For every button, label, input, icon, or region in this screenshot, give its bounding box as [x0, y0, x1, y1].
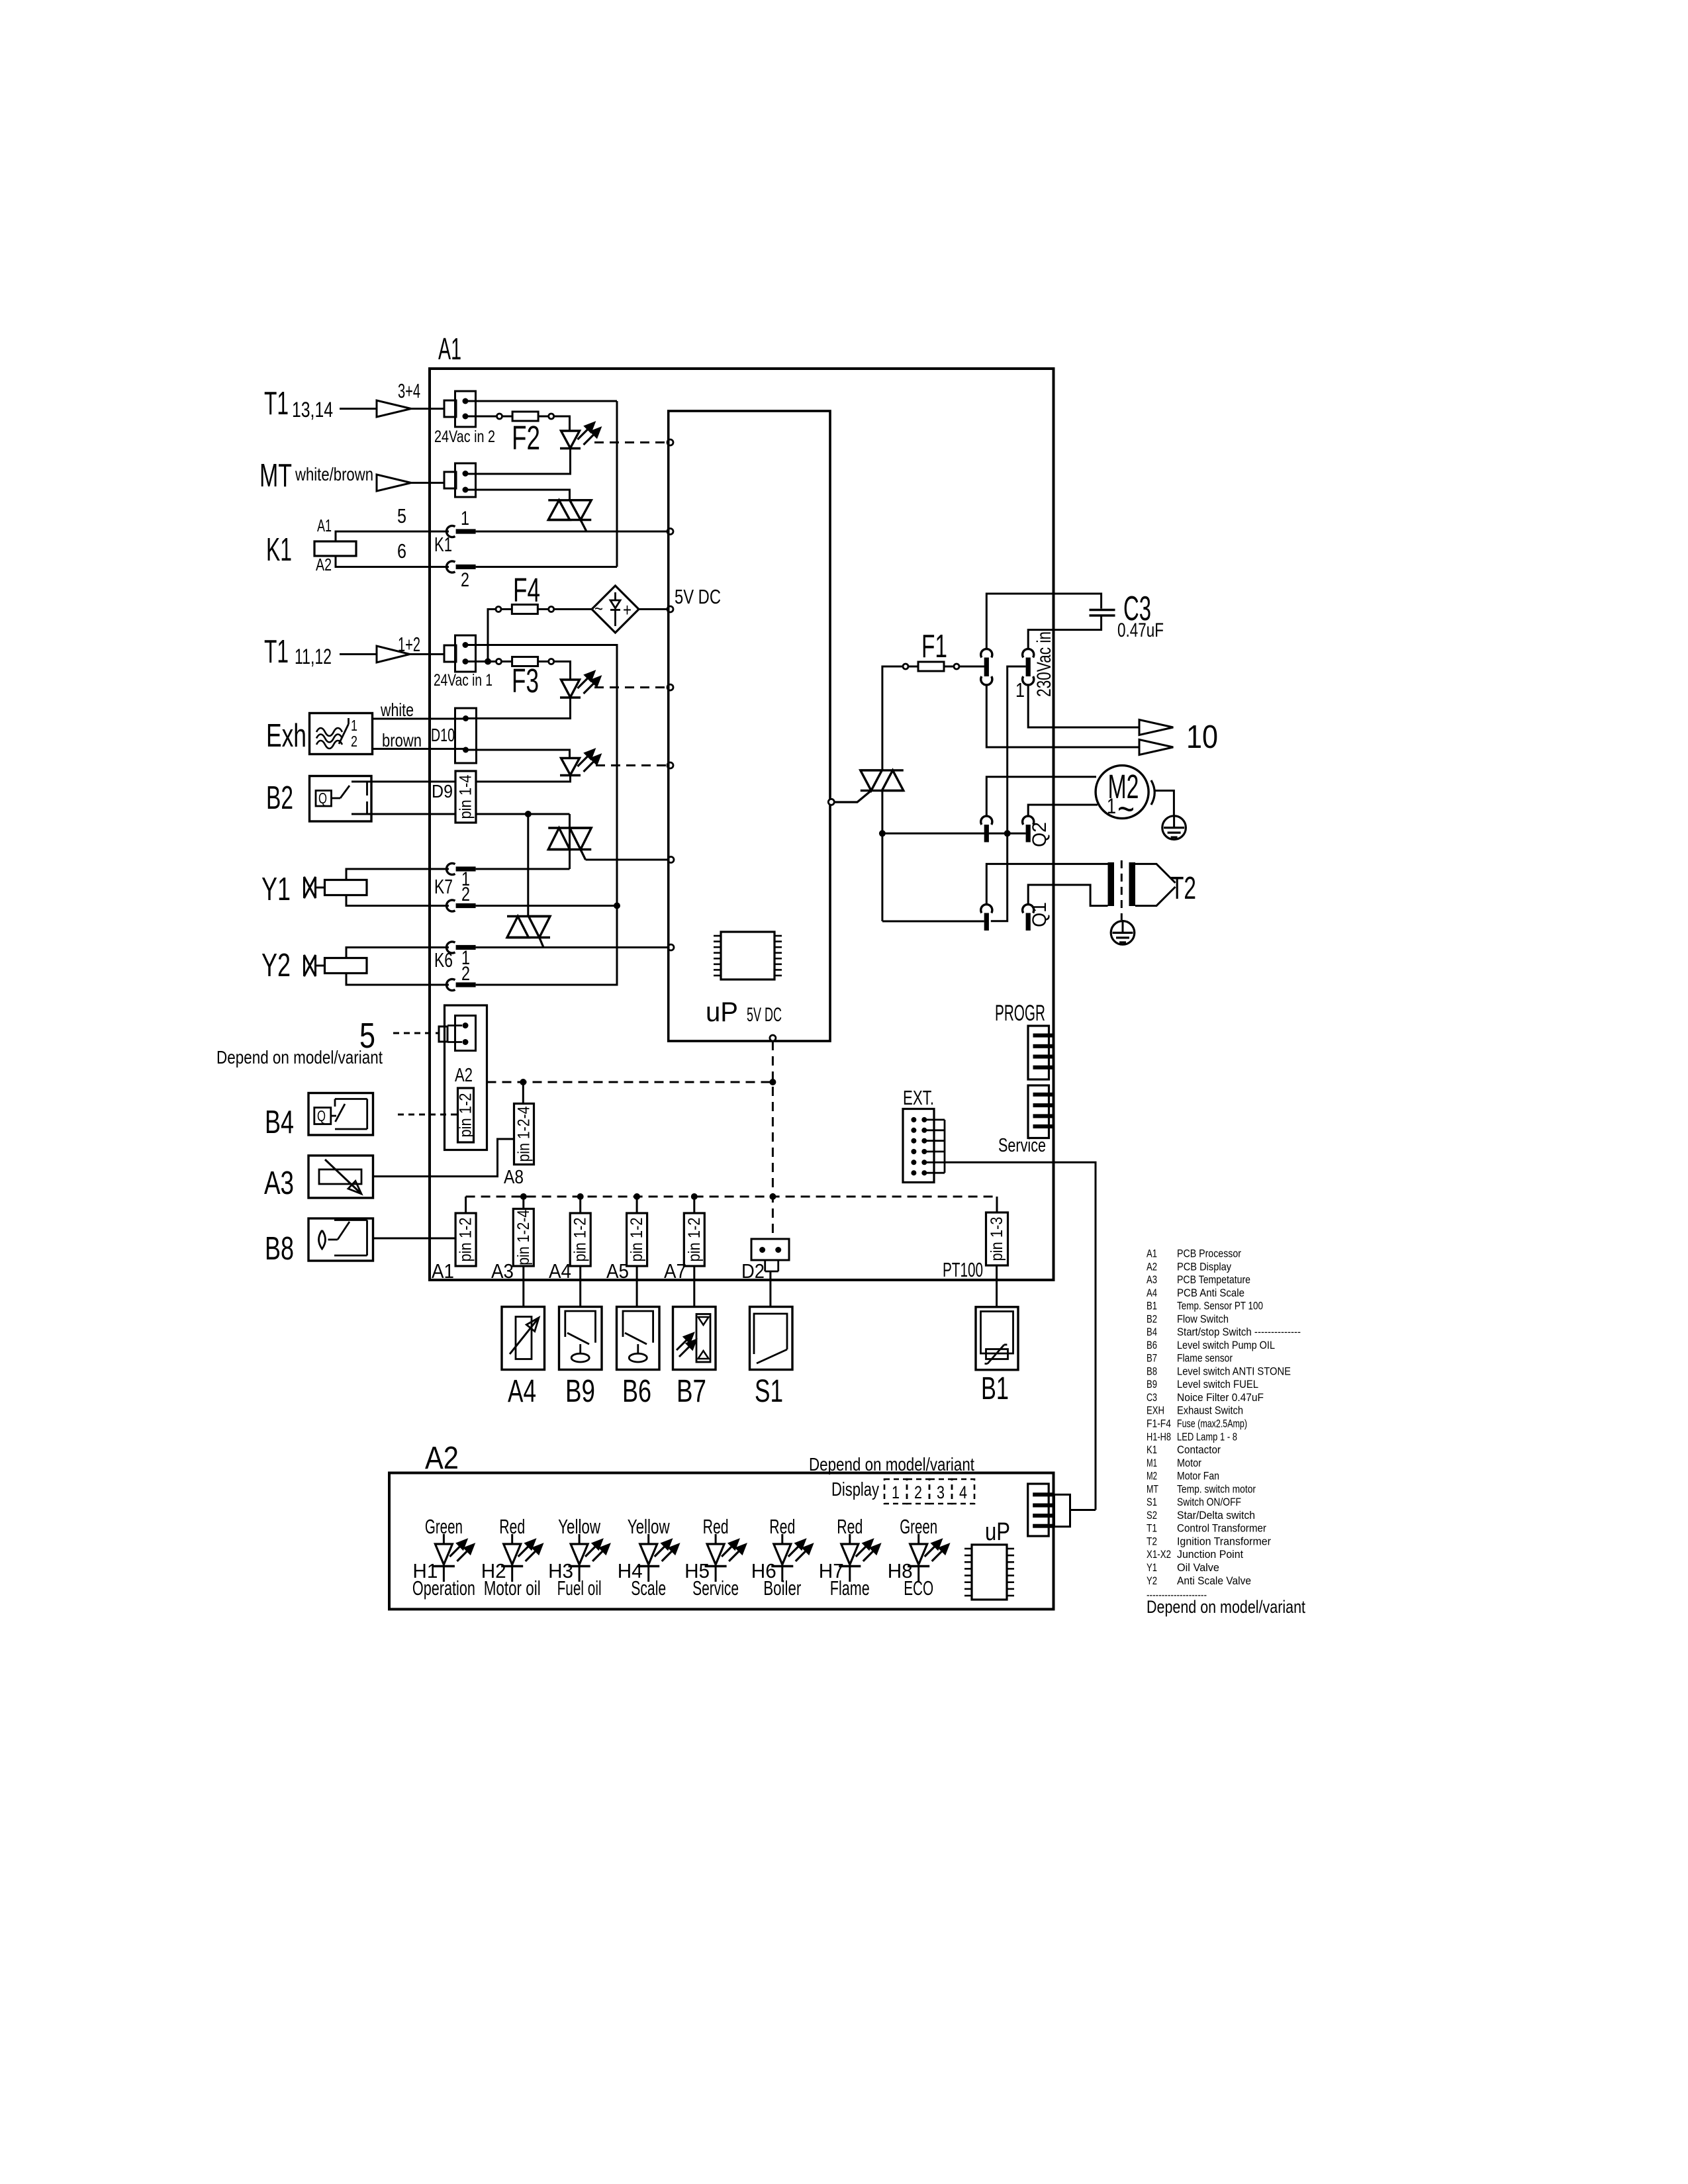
Exh switch box	[310, 713, 373, 754]
svg-text:PT100: PT100	[943, 1258, 983, 1281]
svg-text:Level switch ANTI STONE: Level switch ANTI STONE	[1177, 1365, 1291, 1377]
dashed wire 5 to A2 connector	[393, 1032, 439, 1034]
triac (K7 drive)	[548, 827, 591, 829]
svg-text:A2: A2	[425, 1441, 459, 1476]
svg-text:Star/Delta switch: Star/Delta switch	[1177, 1509, 1255, 1522]
A1 PCB Processor board outline	[430, 369, 1054, 1280]
svg-text:2: 2	[461, 963, 470, 985]
connector A2 (plug+socket)	[439, 1026, 447, 1042]
svg-text:1: 1	[892, 1482, 900, 1502]
relay coil K1	[314, 541, 356, 556]
svg-text:5: 5	[397, 504, 406, 527]
contact Q1 L	[981, 905, 992, 913]
B8 symbol	[319, 1230, 326, 1249]
230Vac in contact R	[1023, 649, 1034, 658]
temp sensor B1 box	[976, 1307, 1018, 1370]
wire K1 A1 to contact 1	[336, 531, 449, 541]
T2 secondary	[1129, 862, 1136, 906]
connector A5 pin 1-2	[627, 1213, 647, 1266]
svg-text:Temp. switch motor: Temp. switch motor	[1177, 1482, 1256, 1495]
svg-text:pin 1-2-4: pin 1-2-4	[514, 1210, 533, 1265]
connector Service comb	[1028, 1085, 1049, 1138]
svg-text:B1: B1	[1147, 1300, 1157, 1312]
wire vertical x932 down to K1 contact 2	[616, 401, 618, 567]
svg-text:D2: D2	[741, 1259, 765, 1283]
svg-text:A4: A4	[549, 1259, 571, 1283]
svg-text:B2: B2	[1147, 1312, 1157, 1325]
svg-text:230Vac in: 230Vac in	[1033, 631, 1055, 697]
svg-text:Temp. Sensor PT 100: Temp. Sensor PT 100	[1177, 1300, 1263, 1312]
triac (K1 drive)	[548, 499, 591, 501]
flame sensor B7 box	[673, 1307, 716, 1370]
wire Y1 to K7-2	[346, 895, 449, 906]
svg-text:pin 1-2: pin 1-2	[457, 1093, 475, 1138]
wire D9 branch down to triac K7	[569, 814, 571, 869]
wire 230Vac L bottom to arrow 10-2	[986, 685, 1139, 747]
svg-text:T2: T2	[1147, 1535, 1157, 1547]
svg-text:4: 4	[959, 1482, 967, 1502]
svg-text:MT: MT	[1147, 1482, 1158, 1495]
svg-text:K1: K1	[434, 533, 452, 556]
svg-text:A1: A1	[317, 516, 332, 535]
wire comb to EXT riser	[1070, 1509, 1096, 1511]
svg-text:A2: A2	[316, 555, 332, 574]
wire C3 top net	[986, 594, 1101, 649]
svg-text:Exh: Exh	[266, 718, 306, 754]
svg-text:F3: F3	[512, 662, 539, 700]
svg-text:A2: A2	[455, 1065, 473, 1086]
Y1 coil	[325, 880, 367, 895]
svg-text:2: 2	[351, 733, 357, 750]
svg-text:A4: A4	[1147, 1287, 1157, 1299]
dashed corner to PT100 pin	[996, 1197, 998, 1212]
wire 230Vac R bottom to arrow 10-1	[1028, 685, 1139, 727]
connector 24Vac in 1	[444, 645, 456, 662]
connector D9 pin 1-4	[455, 771, 476, 823]
svg-text:EXH: EXH	[1147, 1404, 1164, 1417]
svg-text:A2: A2	[1147, 1260, 1157, 1273]
wire bridge to uP 5V	[639, 608, 668, 610]
svg-text:5V DC: 5V DC	[747, 1004, 782, 1026]
svg-text:B2: B2	[266, 780, 293, 816]
svg-text:Junction Point: Junction Point	[1177, 1548, 1243, 1561]
level switch FUEL B9 box	[559, 1307, 602, 1370]
relay contact K1-1	[447, 525, 455, 537]
junction dot dashed A8	[520, 1079, 526, 1085]
svg-text:K1: K1	[1147, 1443, 1157, 1456]
fuse F3	[496, 659, 502, 664]
svg-text:M2: M2	[1147, 1470, 1157, 1482]
svg-text:F4: F4	[513, 571, 540, 609]
svg-text:T2: T2	[1170, 871, 1196, 906]
junction dot F4 tap	[485, 659, 491, 665]
display board comb connector	[1028, 1484, 1049, 1536]
dashed wire B4 to pin1-2	[398, 1114, 458, 1116]
connector PROGR comb	[1028, 1026, 1049, 1079]
svg-text:B1: B1	[981, 1371, 1009, 1406]
svg-text:MT: MT	[259, 458, 292, 494]
svg-text:5V DC: 5V DC	[675, 585, 721, 608]
connector A8 pin 1-2-4	[514, 1104, 534, 1165]
svg-text:3: 3	[937, 1482, 945, 1502]
wire LED3 bottom to B2 net	[352, 776, 571, 782]
bridge rectifier	[592, 586, 639, 633]
svg-text:10: 10	[1186, 719, 1218, 755]
svg-text:C3: C3	[1147, 1391, 1157, 1404]
wire 24Vac1 pin1 right and down to K6-2	[465, 645, 617, 985]
valve symbol Y1	[305, 877, 310, 898]
terminal uP right (triac M2/T2)	[828, 799, 834, 805]
wire K7-2 to x932 net	[476, 905, 617, 907]
svg-text:Contactor: Contactor	[1177, 1443, 1221, 1456]
connector D10	[455, 708, 477, 763]
wire K7-1 to triac branch	[476, 868, 570, 870]
switch ON/OFF S1 box	[750, 1307, 793, 1370]
svg-text:Ignition Transformer: Ignition Transformer	[1177, 1535, 1271, 1547]
dashed link LED to uP	[594, 441, 669, 443]
terminal on uP edge (5V DC)	[667, 606, 673, 612]
B4 box	[308, 1093, 373, 1136]
svg-text:2: 2	[914, 1482, 922, 1502]
svg-text:A1: A1	[432, 1259, 454, 1283]
svg-text:Service: Service	[998, 1135, 1046, 1156]
svg-text:Y2: Y2	[261, 948, 291, 983]
contact Q2 L	[981, 816, 992, 825]
svg-text:Display: Display	[831, 1479, 879, 1500]
svg-text:Service: Service	[692, 1576, 739, 1600]
wire A3 to A8	[373, 1139, 514, 1177]
svg-text:Level switch FUEL: Level switch FUEL	[1177, 1378, 1258, 1390]
svg-text:F1: F1	[921, 629, 947, 664]
wire Y1 to K7-1	[346, 869, 449, 880]
svg-text:2: 2	[461, 884, 470, 905]
wire B2 to D9 (through) lower	[352, 813, 570, 815]
svg-text:1: 1	[461, 508, 469, 529]
svg-text:Boiler: Boiler	[763, 1576, 801, 1600]
EXT bus bar	[944, 1120, 946, 1173]
PCB anti scale A4 box	[502, 1307, 545, 1370]
230Vac in contact L (top arc)	[981, 649, 992, 658]
svg-text:Scale: Scale	[631, 1576, 666, 1600]
svg-text:~: ~	[1117, 788, 1135, 829]
svg-text:S2: S2	[1147, 1509, 1157, 1522]
wire C3 bottom net	[1028, 615, 1101, 649]
connector A4 pin 1-2	[570, 1213, 590, 1266]
svg-text:white: white	[380, 700, 414, 720]
svg-text:Control Transformer: Control Transformer	[1177, 1522, 1266, 1535]
svg-text:A4: A4	[508, 1374, 536, 1409]
svg-text:ECO: ECO	[904, 1576, 933, 1600]
wire T1 13,14 to arrow	[340, 408, 377, 410]
svg-text:Flame sensor: Flame sensor	[1177, 1352, 1233, 1365]
terminal on uP edge (LED1)	[667, 439, 673, 445]
wire F1 left to triac3	[882, 666, 903, 770]
junction dot Q2 net	[1004, 830, 1011, 837]
svg-text:Depend on model/variant: Depend on model/variant	[809, 1454, 974, 1475]
svg-text:3+4: 3+4	[398, 379, 420, 402]
wire K1 contact2 to vertical	[476, 566, 617, 568]
arrow MT	[377, 475, 411, 491]
terminal on uP edge (triac K7)	[668, 857, 674, 863]
wire D10 pin2 to LED3	[466, 750, 570, 758]
B2 flow switch box	[310, 776, 372, 822]
svg-text:Motor Fan: Motor Fan	[1177, 1470, 1219, 1482]
A3 box	[308, 1156, 373, 1198]
connector A3 pin 1-2-4	[513, 1209, 534, 1267]
connector A7 pin 1-2	[684, 1213, 704, 1266]
svg-text:B7: B7	[1147, 1352, 1157, 1365]
wire triac3 down to Q1 row	[881, 833, 883, 921]
svg-text:Oil Valve: Oil Valve	[1177, 1561, 1219, 1574]
svg-text:Switch ON/OFF: Switch ON/OFF	[1177, 1496, 1241, 1508]
valve symbol Y2	[305, 955, 310, 976]
T2 secondary terminals	[1135, 864, 1176, 883]
svg-text:Q: Q	[317, 1107, 326, 1124]
wire A7pin to B7 box	[693, 1266, 695, 1306]
svg-text:Depend on model/variant: Depend on model/variant	[1147, 1597, 1305, 1617]
svg-text:F1-F4: F1-F4	[1147, 1418, 1171, 1430]
relay contact K1-2	[447, 561, 455, 572]
svg-text:Level switch Pump OIL: Level switch Pump OIL	[1177, 1339, 1275, 1351]
wire K6-1 to uP	[476, 946, 669, 948]
svg-text:S1: S1	[1147, 1496, 1157, 1508]
wire 230Vac R bar to Q2 net riser	[991, 666, 1026, 921]
junction dot A3 stub	[520, 1193, 527, 1200]
wire Y2 to K6-2	[346, 974, 449, 985]
svg-text:B4: B4	[1147, 1326, 1157, 1338]
wire T1 11,12 to arrow	[340, 653, 377, 655]
Y2 coil	[325, 958, 367, 974]
terminal uP bottom (display link)	[770, 1035, 776, 1041]
display digit cells	[884, 1479, 907, 1504]
svg-text:Flame: Flame	[830, 1576, 870, 1600]
junction dot D9 branch	[525, 811, 532, 817]
Exh wavy symbol	[316, 728, 342, 736]
svg-text:pin 1-2-4: pin 1-2-4	[515, 1106, 534, 1161]
wire M2 to earth	[1154, 791, 1174, 816]
wire LED to MT pin1	[465, 449, 571, 475]
fuse F2	[497, 414, 502, 419]
wire M2 bottom to Q2 R	[1028, 805, 1098, 817]
display comb bracket	[1055, 1494, 1070, 1526]
B2 symbol	[316, 791, 332, 807]
svg-text:brown: brown	[382, 730, 422, 751]
svg-text:Noice Filter 0.47uF: Noice Filter 0.47uF	[1177, 1391, 1264, 1404]
svg-text:S1: S1	[755, 1374, 783, 1409]
uP microprocessor block	[669, 411, 830, 1041]
svg-text:Fuel oil: Fuel oil	[557, 1576, 602, 1600]
svg-text:Q1: Q1	[1029, 902, 1051, 927]
svg-text:B7: B7	[677, 1374, 706, 1409]
triac3 gate wire to uP	[834, 791, 871, 802]
junction dot dashed at D2 riser	[769, 1079, 776, 1085]
wire Q1 L to T2 top	[986, 864, 1107, 905]
wire F1 right to 230Vac contact	[959, 666, 984, 668]
arrow T1 11,12	[377, 646, 410, 662]
svg-text:1+2: 1+2	[398, 633, 420, 656]
svg-text:Motor: Motor	[1177, 1457, 1201, 1469]
svg-text:24Vac in 1: 24Vac in 1	[434, 671, 492, 690]
svg-text:Start/stop Switch -----------: Start/stop Switch --------------	[1177, 1326, 1301, 1338]
relay contact K7-2	[447, 900, 455, 911]
svg-text:A1: A1	[1147, 1248, 1157, 1260]
svg-text:Operation: Operation	[412, 1576, 475, 1600]
svg-text:B8: B8	[265, 1231, 294, 1267]
svg-text:1: 1	[1107, 794, 1116, 818]
motor fan M2	[1096, 766, 1149, 819]
svg-text:pin 1-2: pin 1-2	[571, 1218, 590, 1262]
svg-text:B9: B9	[1147, 1378, 1157, 1390]
svg-text:13,14: 13,14	[292, 398, 333, 422]
svg-text:pin 1-2: pin 1-2	[628, 1218, 646, 1262]
dashed net A2 to D2 vertical	[487, 1081, 773, 1083]
dashed stub to A1 pin	[465, 1197, 467, 1213]
PCB display board A2	[389, 1473, 1054, 1610]
junction dot D2 riser	[769, 1193, 776, 1200]
svg-text:Motor oil: Motor oil	[484, 1576, 541, 1600]
svg-text:Y1: Y1	[261, 872, 291, 907]
svg-text:B4: B4	[265, 1105, 294, 1140]
A3 pot symbol	[319, 1169, 361, 1184]
junction dot A7 stub	[691, 1193, 698, 1200]
svg-text:PCB Processor: PCB Processor	[1177, 1248, 1241, 1260]
svg-text:EXT.: EXT.	[903, 1086, 934, 1109]
wire triac3 to Q2 row	[881, 791, 883, 834]
svg-text:pin 1-2: pin 1-2	[685, 1218, 704, 1262]
svg-text:LED Lamp 1 - 8: LED Lamp 1 - 8	[1177, 1430, 1237, 1443]
dashed link LED2 to uP	[594, 686, 668, 688]
svg-text:A1: A1	[438, 332, 461, 366]
relay contact K7-1	[447, 863, 455, 874]
relay contact K6-2	[447, 979, 455, 990]
svg-text:Flow Switch: Flow Switch	[1177, 1312, 1229, 1325]
svg-text:uP: uP	[985, 1518, 1010, 1546]
wire Y2 to K6-1	[346, 948, 449, 958]
svg-text:K6: K6	[434, 948, 453, 972]
Exh switch blade	[348, 718, 350, 724]
LED indicator (Exh)	[561, 758, 580, 776]
svg-text:K1: K1	[266, 532, 292, 568]
svg-text:A8: A8	[504, 1167, 524, 1188]
svg-text:+: +	[623, 600, 632, 620]
wire arrow to connector 24Vac in 2	[411, 408, 444, 410]
ignition transformer T2 primary	[1108, 862, 1115, 906]
B8 box	[308, 1218, 373, 1261]
svg-text:1: 1	[1015, 678, 1025, 702]
svg-text:H1-H8: H1-H8	[1147, 1430, 1171, 1443]
capacitor C3 plates	[1090, 609, 1115, 611]
dashed sensor bus	[466, 1196, 997, 1198]
svg-text:PCB Anti Scale: PCB Anti Scale	[1177, 1287, 1244, 1299]
svg-text:PROGR: PROGR	[995, 1001, 1045, 1026]
svg-text:pin 1-2: pin 1-2	[457, 1218, 475, 1262]
svg-text:pin 1-4: pin 1-4	[457, 774, 475, 819]
uP chip symbol	[721, 932, 774, 979]
contact Q1 R	[1023, 905, 1034, 913]
svg-text:A3: A3	[1147, 1273, 1157, 1286]
wire LED2 to D10 pin1	[466, 698, 571, 719]
M2 shaft arc	[1151, 780, 1154, 805]
svg-text:24Vac in 2: 24Vac in 2	[434, 428, 495, 446]
wire MT pin2 to triac	[465, 490, 570, 500]
svg-text:X1-X2: X1-X2	[1147, 1548, 1171, 1561]
dashed link LED3 to uP	[596, 764, 668, 766]
junction dot A5 stub	[633, 1193, 640, 1200]
svg-text:6: 6	[397, 539, 406, 563]
junction dot A4 stub	[577, 1193, 584, 1200]
svg-text:Y1: Y1	[1147, 1561, 1157, 1574]
dashed stub to A8	[522, 1082, 524, 1104]
wire A4pin to B9 box	[579, 1266, 581, 1306]
svg-text:M1: M1	[1147, 1457, 1157, 1469]
connector PT100 pin 1-3	[986, 1212, 1008, 1265]
svg-text:B9: B9	[565, 1374, 595, 1409]
svg-text:K7: K7	[434, 875, 453, 898]
wire 24Vac2 pin1 to right vertical	[465, 400, 617, 402]
svg-text:D10: D10	[431, 725, 455, 745]
LED indicator (24Vac1)	[561, 680, 580, 698]
svg-text:Q: Q	[318, 790, 327, 807]
svg-text:T1: T1	[264, 386, 289, 422]
svg-text:A7: A7	[664, 1259, 686, 1283]
connector 24Vac in 2	[444, 400, 456, 417]
wire B8 to A1 connector	[373, 1238, 456, 1240]
wire F3 to LED2	[554, 662, 571, 680]
svg-text:PCB Display: PCB Display	[1177, 1260, 1231, 1273]
svg-text:Q2: Q2	[1029, 822, 1051, 847]
triac K6 gate	[539, 938, 543, 948]
dashed riser uP to D2	[772, 1041, 774, 1239]
arrow 10-1	[1139, 720, 1173, 735]
connector A1 pin 1-2	[455, 1213, 476, 1266]
wire Q1 R to T2 bottom	[1028, 885, 1107, 906]
svg-text:A3: A3	[491, 1259, 514, 1283]
contact Q2 R	[1023, 816, 1034, 825]
svg-text:uP: uP	[706, 996, 738, 1027]
svg-text:B6: B6	[622, 1374, 651, 1409]
wire EXT to A2 board	[945, 1162, 1096, 1510]
relay contact K6-1	[447, 942, 455, 953]
wire 24Vac1 pin2 to fuse F3	[465, 660, 496, 662]
terminal on uP edge (K1)	[667, 529, 673, 535]
wire D9 branch to triac K6	[527, 814, 529, 917]
svg-text:Anti Scale Valve: Anti Scale Valve	[1177, 1574, 1251, 1587]
triac (K6 drive)	[507, 915, 550, 917]
connector D2	[751, 1239, 789, 1260]
junction dot triac3	[879, 830, 886, 837]
svg-text:0.47uF: 0.47uF	[1117, 619, 1164, 641]
wire Exh brown to D10	[373, 748, 466, 750]
wire F4 right to bridge	[554, 608, 592, 610]
terminal on uP edge (LED2)	[667, 684, 673, 690]
svg-text:A3: A3	[264, 1165, 294, 1201]
wire PT100 to B1	[996, 1265, 998, 1307]
svg-text:B8: B8	[1147, 1365, 1157, 1377]
wire Exh white to D10	[373, 718, 466, 720]
level switch pump oil B6 box	[617, 1307, 660, 1370]
terminal on uP edge (triac K6)	[668, 944, 674, 950]
wire K1-1 to uP	[476, 531, 669, 533]
svg-text:white/brown: white/brown	[295, 464, 373, 484]
wire A5pin to B6 box	[636, 1266, 638, 1306]
wire K1 A2 to contact 2	[336, 556, 449, 567]
triac (fan/ignition)	[861, 769, 904, 771]
svg-text:~: ~	[594, 598, 603, 619]
connector pin 1-2 (A2)	[458, 1088, 474, 1142]
earth (M2)	[1162, 816, 1186, 840]
wire M2 top to Q2 L	[986, 777, 1096, 817]
svg-text:T1: T1	[264, 634, 289, 670]
